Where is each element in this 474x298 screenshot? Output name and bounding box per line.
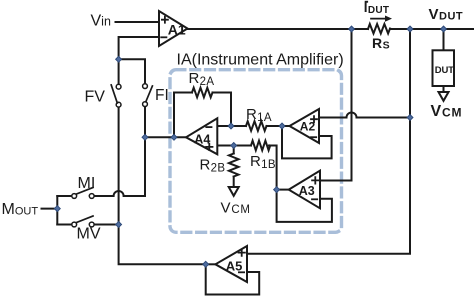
node A5 output: [203, 261, 209, 267]
wire MOUT vertical between MI and MV rows: [56, 196, 58, 225]
node junction dots: [54, 26, 446, 267]
wire A2 feedback loop: [282, 126, 332, 158]
op-amp A1: [159, 11, 188, 46]
node A1 minus: [116, 56, 122, 62]
node R2A to minus row: [228, 123, 234, 129]
switch MV blade: [76, 216, 93, 223]
wire R2B to VCM arrow: [233, 177, 235, 188]
pin + of A3: [312, 177, 318, 183]
wire FV lower to MV junction down to A5 output row: [119, 107, 206, 264]
wire top rail right of RS: [390, 28, 473, 30]
svg-text:VCM: VCM: [431, 103, 463, 120]
wire R2A to A4 - row: [213, 93, 232, 127]
ground VCM arrow (DUT): [443, 86, 445, 92]
svg-text:DUT: DUT: [435, 65, 454, 76]
wire A3 feedback loop: [277, 190, 332, 222]
wire MV row right to FV line: [94, 224, 119, 226]
wire FI lower down to MI row: [144, 106, 146, 196]
switch FV blade: [111, 85, 117, 103]
ground VCM arrow (IA): [229, 187, 239, 196]
wire sense line down right side to A5 + input: [247, 29, 410, 254]
node A4 output: [171, 134, 177, 140]
pin - of A4: [206, 126, 211, 128]
node R2B branch: [231, 143, 237, 149]
svg-text:FV: FV: [85, 89, 106, 106]
node VDUT tap: [441, 26, 447, 32]
wire A5 feedback loop: [206, 264, 260, 294]
wire jog node to FI switch: [119, 59, 145, 84]
wire R2A feedback loop: [174, 93, 192, 138]
svg-text:A4: A4: [194, 132, 210, 146]
node MOUT: [54, 206, 60, 212]
wire A1 output top rail: [187, 28, 369, 30]
op-amp A2: [290, 109, 320, 143]
svg-text:VCM: VCM: [221, 199, 251, 216]
svg-text:IA(Instrument Amplifier): IA(Instrument Amplifier): [177, 51, 344, 68]
node FI line at A4 out: [142, 134, 148, 140]
node A2 output: [279, 123, 285, 129]
node A1 output rail: [349, 26, 355, 32]
node A3 output: [274, 187, 280, 193]
svg-text:RS: RS: [372, 35, 390, 52]
node A2 plus sense: [407, 115, 413, 121]
node MV to FV line: [116, 222, 122, 228]
pin - of A3: [312, 198, 317, 200]
resistor RS: [368, 24, 390, 34]
svg-text:A5: A5: [226, 258, 243, 273]
switch MV contacts: [72, 222, 77, 227]
switch FV contacts: [116, 84, 121, 89]
wire A5 output stub: [206, 263, 216, 265]
node VDUT rail left: [407, 26, 413, 32]
switch FI blade: [146, 86, 153, 102]
svg-text:A3: A3: [299, 184, 315, 198]
switch MI contacts: [72, 194, 77, 199]
svg-text:A2: A2: [300, 120, 316, 134]
wire MV row left: [57, 224, 72, 226]
svg-text:R2B: R2B: [200, 157, 226, 175]
svg-text:Vin: Vin: [91, 13, 111, 30]
resistor R2A: [192, 88, 212, 98]
svg-text:FI: FI: [155, 87, 169, 104]
pin + of A2: [311, 116, 317, 122]
resistor R1A: [246, 121, 266, 131]
wire VDUT tap down to DUT: [443, 29, 445, 50]
op-amp A3: [289, 171, 320, 209]
svg-text:R1B: R1B: [250, 153, 276, 171]
wire R1A to A2 node: [267, 125, 290, 127]
wire MI row left: [57, 195, 72, 197]
wire A3 apex stub: [277, 189, 289, 191]
wire A4 - input row: [217, 125, 246, 127]
svg-text:VDUT: VDUT: [429, 6, 464, 23]
IA dashed box: [170, 70, 342, 233]
pin - of A2: [311, 136, 316, 138]
DUT box: [433, 50, 455, 86]
resistor R1B: [251, 141, 270, 151]
op-amp A5: [215, 246, 247, 282]
switch FI contacts: [143, 84, 148, 89]
svg-text:MOUT: MOUT: [2, 201, 39, 218]
wire A2 + input with hop over A3 sense line: [319, 113, 410, 118]
svg-text:A1: A1: [168, 22, 186, 38]
pin + of A4: [206, 144, 212, 150]
wire node to FV switch: [118, 59, 120, 84]
pin + of A5: [239, 249, 245, 255]
switch MI blade: [76, 188, 93, 195]
wire Vin to A1 + input: [116, 21, 160, 23]
resistor R2B: [229, 154, 239, 177]
wire R2B branch: [233, 146, 235, 154]
svg-text:MI: MI: [78, 175, 96, 192]
svg-text:MV: MV: [77, 226, 101, 243]
wire A4 output to apex: [145, 136, 186, 138]
op-amp A4: [186, 118, 217, 154]
wire MI row with hop over FV line: [94, 191, 145, 196]
pin - of A5: [239, 271, 244, 273]
wire MOUT stub: [42, 208, 58, 210]
wire A4 + input row: [217, 145, 251, 147]
svg-text:R1A: R1A: [246, 106, 272, 124]
wire A1out node down to A3 + input: [320, 29, 352, 181]
pin - of A1: [161, 36, 166, 38]
current arrow IDUT: [371, 18, 386, 20]
pin + of A1: [162, 17, 168, 23]
wire R1B to A3 node: [269, 146, 277, 190]
wire A1 - input from node: [119, 37, 159, 59]
svg-text:R2A: R2A: [189, 70, 215, 88]
